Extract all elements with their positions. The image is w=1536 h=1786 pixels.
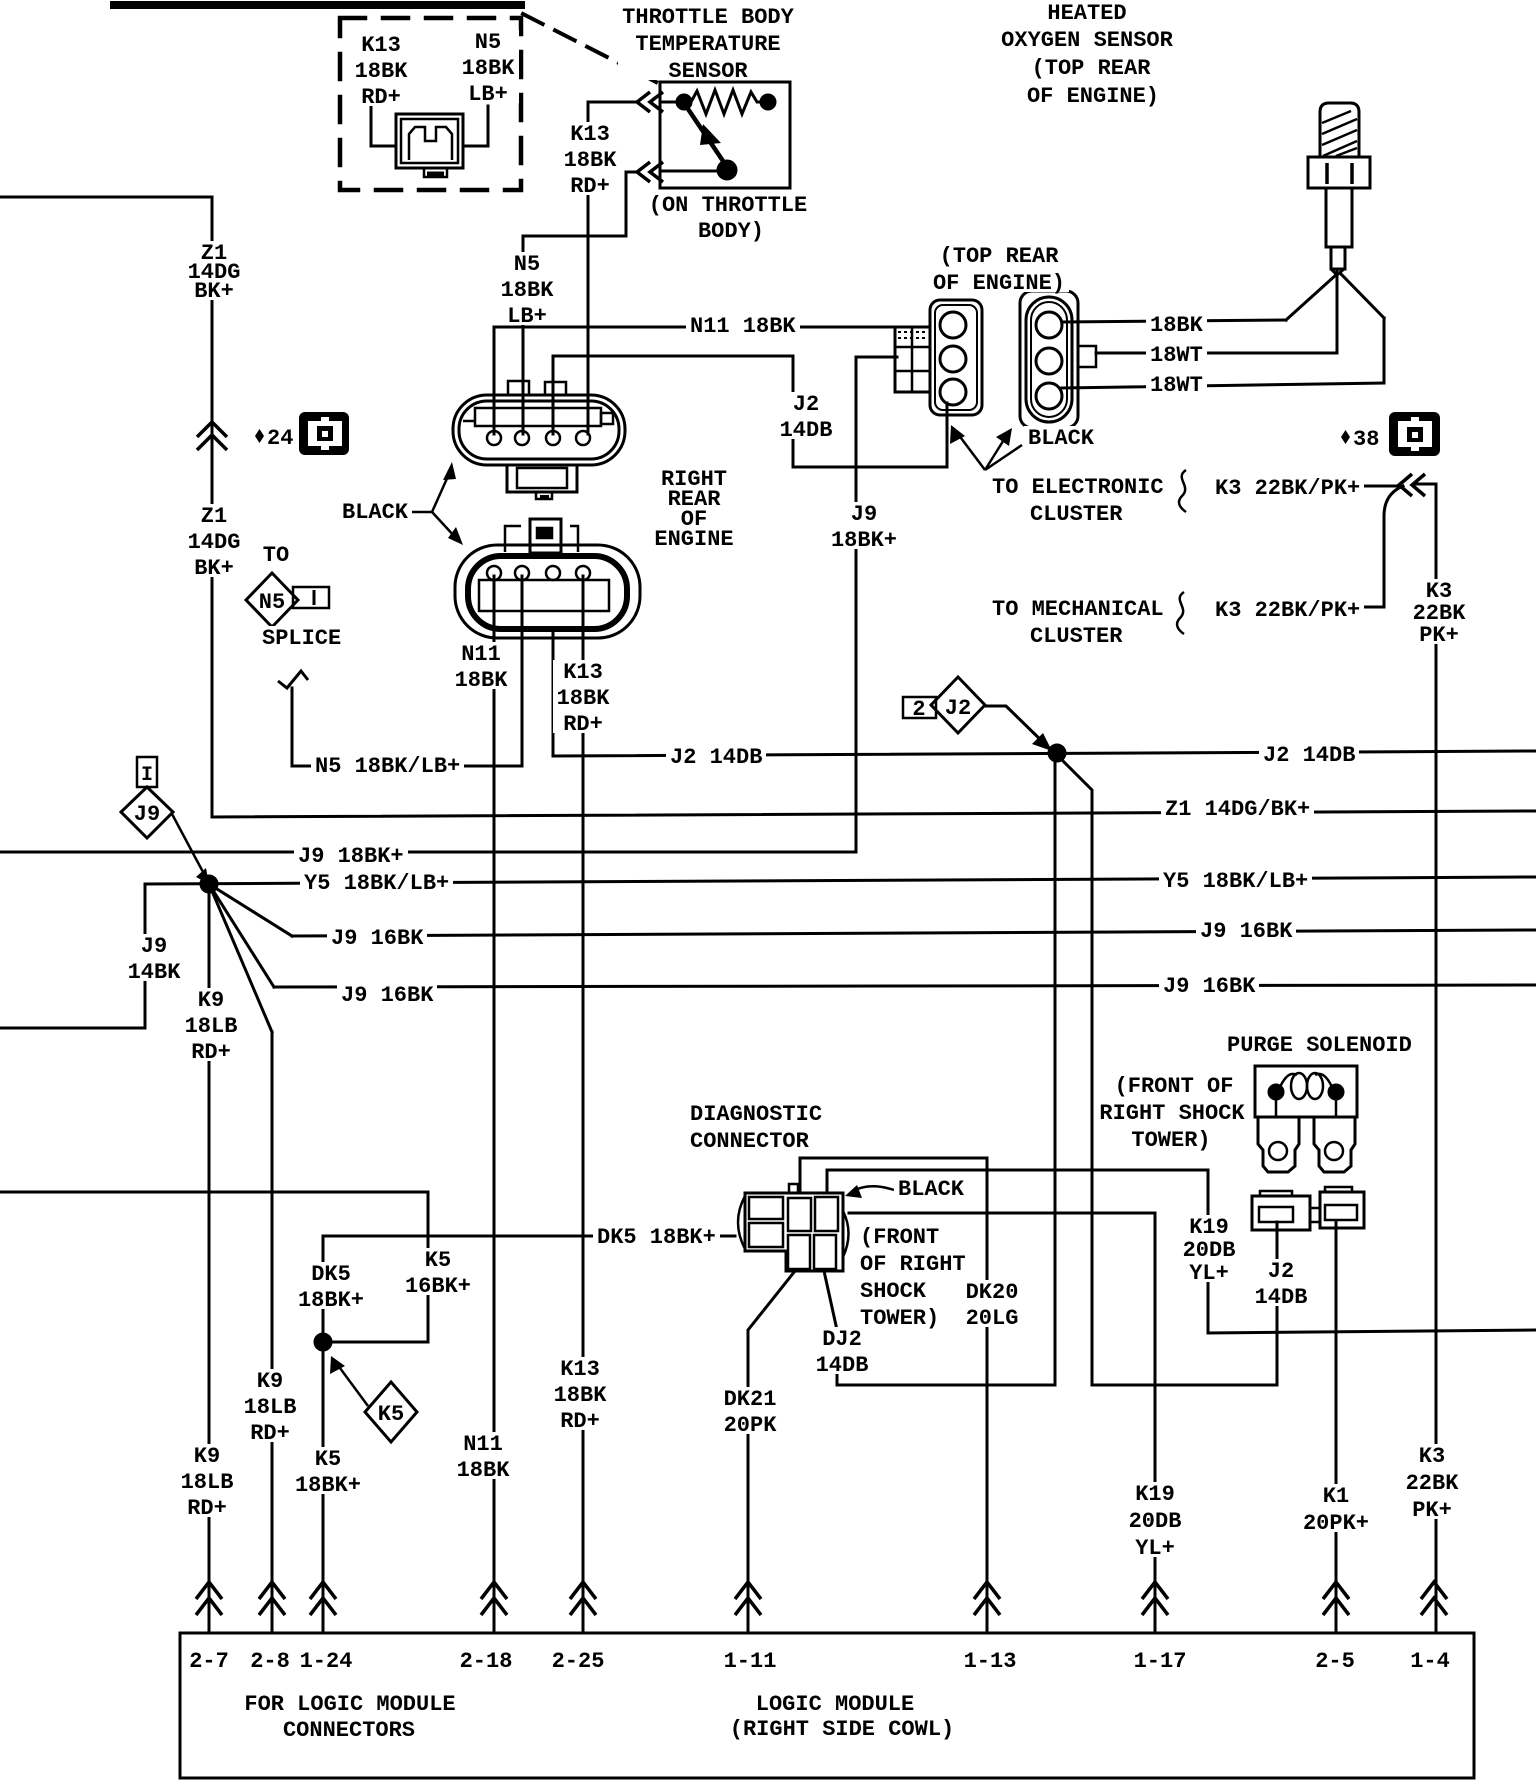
- svg-text:SPLICE: SPLICE: [262, 626, 341, 651]
- svg-text:DJ2: DJ2: [822, 1327, 862, 1352]
- svg-text:20PK+: 20PK+: [1303, 1511, 1369, 1536]
- svg-text:TO: TO: [263, 543, 289, 568]
- svg-text:K9: K9: [194, 1444, 220, 1469]
- svg-text:I: I: [141, 764, 153, 787]
- svg-text:14DB: 14DB: [816, 1353, 869, 1378]
- svg-text:RD+: RD+: [570, 174, 610, 199]
- svg-text:CLUSTER: CLUSTER: [1030, 624, 1123, 649]
- svg-text:LOGIC MODULE: LOGIC MODULE: [756, 1692, 914, 1717]
- svg-text:1-4: 1-4: [1410, 1649, 1450, 1674]
- svg-text:(TOP REAR: (TOP REAR: [940, 244, 1060, 269]
- svg-text:2-25: 2-25: [552, 1649, 605, 1674]
- svg-text:RD+: RD+: [563, 712, 603, 737]
- svg-text:BLACK: BLACK: [1028, 426, 1095, 451]
- svg-text:OXYGEN SENSOR: OXYGEN SENSOR: [1001, 28, 1173, 53]
- svg-text:N5 18BK/LB+: N5 18BK/LB+: [315, 754, 460, 779]
- svg-text:N5: N5: [259, 590, 285, 615]
- svg-text:J9 16BK: J9 16BK: [1200, 919, 1293, 944]
- svg-text:2-5: 2-5: [1315, 1649, 1355, 1674]
- svg-text:K1: K1: [1323, 1484, 1349, 1509]
- svg-text:K3: K3: [1419, 1444, 1445, 1469]
- svg-text:J9: J9: [134, 802, 160, 827]
- svg-text:ENGINE: ENGINE: [654, 527, 733, 552]
- svg-text:CONNECTORS: CONNECTORS: [283, 1718, 415, 1743]
- svg-text:18BK: 18BK: [557, 686, 611, 711]
- svg-text:J2: J2: [1268, 1259, 1294, 1284]
- svg-text:LB+: LB+: [507, 304, 547, 329]
- svg-text:N11: N11: [461, 642, 501, 667]
- svg-text:18BK+: 18BK+: [831, 528, 897, 553]
- svg-text:J9 16BK: J9 16BK: [331, 926, 424, 951]
- svg-text:18BK: 18BK: [554, 1383, 608, 1408]
- svg-text:SHOCK: SHOCK: [860, 1279, 927, 1304]
- svg-text:14DG: 14DG: [188, 530, 241, 555]
- svg-text:K13: K13: [563, 660, 603, 685]
- svg-text:RD+: RD+: [250, 1421, 290, 1446]
- svg-text:RD+: RD+: [187, 1496, 227, 1521]
- svg-text:24: 24: [267, 426, 293, 451]
- svg-text:18BK+: 18BK+: [298, 1288, 364, 1313]
- svg-text:CONNECTOR: CONNECTOR: [690, 1129, 810, 1154]
- svg-text:2-8: 2-8: [250, 1649, 290, 1674]
- svg-text:1-13: 1-13: [964, 1649, 1017, 1674]
- svg-text:(FRONT OF: (FRONT OF: [1115, 1074, 1234, 1099]
- svg-text:THROTTLE BODY: THROTTLE BODY: [622, 5, 794, 30]
- svg-text:K9: K9: [198, 988, 224, 1013]
- svg-text:YL+: YL+: [1189, 1261, 1229, 1286]
- svg-text:20DB: 20DB: [1129, 1509, 1182, 1534]
- svg-text:K3 22BK/PK+: K3 22BK/PK+: [1215, 476, 1360, 501]
- svg-text:14DB: 14DB: [780, 418, 833, 443]
- svg-text:(ON THROTTLE: (ON THROTTLE: [649, 193, 807, 218]
- svg-text:1-24: 1-24: [300, 1649, 353, 1674]
- svg-text:J9 16BK: J9 16BK: [341, 983, 434, 1008]
- svg-text:RD+: RD+: [191, 1040, 231, 1065]
- svg-text:1-11: 1-11: [724, 1649, 777, 1674]
- svg-text:BODY): BODY): [698, 219, 764, 244]
- svg-text:N5: N5: [514, 252, 540, 277]
- svg-text:20LG: 20LG: [966, 1306, 1019, 1331]
- svg-text:J2: J2: [945, 696, 971, 721]
- svg-text:Y5 18BK/LB+: Y5 18BK/LB+: [1163, 869, 1308, 894]
- svg-text:OF RIGHT: OF RIGHT: [860, 1252, 966, 1277]
- svg-text:18BK: 18BK: [355, 59, 409, 84]
- svg-text:PURGE SOLENOID: PURGE SOLENOID: [1227, 1033, 1412, 1058]
- svg-text:18BK: 18BK: [457, 1458, 511, 1483]
- svg-text:OF ENGINE): OF ENGINE): [1027, 84, 1159, 109]
- svg-text:(FRONT: (FRONT: [860, 1225, 939, 1250]
- svg-text:Y5 18BK/LB+: Y5 18BK/LB+: [304, 871, 449, 896]
- svg-text:18BK: 18BK: [455, 668, 509, 693]
- svg-text:18BK: 18BK: [564, 148, 618, 173]
- svg-text:18BK: 18BK: [1150, 313, 1204, 338]
- svg-text:K19: K19: [1135, 1482, 1175, 1507]
- svg-text:DK21: DK21: [724, 1387, 777, 1412]
- svg-text:DK5 18BK+: DK5 18BK+: [597, 1225, 716, 1250]
- svg-text:2-18: 2-18: [460, 1649, 513, 1674]
- svg-text:2-7: 2-7: [189, 1649, 229, 1674]
- svg-text:18LB: 18LB: [185, 1014, 238, 1039]
- svg-text:BLACK: BLACK: [342, 500, 409, 525]
- svg-text:DK20: DK20: [966, 1280, 1019, 1305]
- svg-text:FOR LOGIC MODULE: FOR LOGIC MODULE: [244, 1692, 455, 1717]
- svg-text:SENSOR: SENSOR: [668, 59, 748, 84]
- svg-text:K19: K19: [1189, 1215, 1229, 1240]
- svg-text:DIAGNOSTIC: DIAGNOSTIC: [690, 1102, 822, 1127]
- svg-text:16BK+: 16BK+: [405, 1274, 471, 1299]
- svg-text:BLACK: BLACK: [898, 1177, 965, 1202]
- svg-text:N5: N5: [475, 30, 501, 55]
- svg-text:(RIGHT SIDE COWL): (RIGHT SIDE COWL): [730, 1717, 954, 1742]
- svg-text:K5: K5: [378, 1402, 404, 1427]
- svg-text:RIGHT SHOCK: RIGHT SHOCK: [1099, 1101, 1245, 1126]
- svg-text:N11 18BK: N11 18BK: [690, 314, 796, 339]
- svg-text:20DB: 20DB: [1183, 1238, 1236, 1263]
- svg-text:LB+: LB+: [468, 82, 508, 107]
- svg-text:BK+: BK+: [194, 279, 234, 304]
- svg-text:K3 22BK/PK+: K3 22BK/PK+: [1215, 598, 1360, 623]
- svg-text:22BK: 22BK: [1406, 1471, 1460, 1496]
- svg-text:K9: K9: [257, 1369, 283, 1394]
- svg-text:TEMPERATURE: TEMPERATURE: [635, 32, 780, 57]
- svg-text:TO MECHANICAL: TO MECHANICAL: [992, 597, 1164, 622]
- svg-text:CLUSTER: CLUSTER: [1030, 502, 1123, 527]
- svg-text:RD+: RD+: [560, 1409, 600, 1434]
- svg-text:BK+: BK+: [194, 556, 234, 581]
- svg-text:TOWER): TOWER): [1131, 1128, 1210, 1153]
- svg-text:18BK: 18BK: [462, 56, 516, 81]
- svg-text:TO ELECTRONIC: TO ELECTRONIC: [992, 475, 1164, 500]
- svg-text:J9 16BK: J9 16BK: [1163, 974, 1256, 999]
- svg-text:OF ENGINE): OF ENGINE): [933, 271, 1065, 296]
- svg-text:K5: K5: [315, 1447, 341, 1472]
- svg-text:RD+: RD+: [361, 85, 401, 110]
- svg-text:18WT: 18WT: [1150, 343, 1203, 368]
- svg-text:J9: J9: [851, 502, 877, 527]
- svg-text:HEATED: HEATED: [1047, 1, 1126, 26]
- svg-text:J9 18BK+: J9 18BK+: [298, 844, 404, 869]
- svg-text:Z1: Z1: [201, 504, 227, 529]
- svg-text:2: 2: [912, 697, 925, 722]
- svg-text:20PK: 20PK: [724, 1413, 778, 1438]
- svg-text:J2 14DB: J2 14DB: [1263, 743, 1355, 768]
- svg-text:N11: N11: [463, 1432, 503, 1457]
- svg-text:18LB: 18LB: [244, 1395, 297, 1420]
- svg-text:PK+: PK+: [1412, 1498, 1452, 1523]
- svg-text:PK+: PK+: [1419, 623, 1459, 648]
- svg-text:Z1 14DG/BK+: Z1 14DG/BK+: [1165, 797, 1310, 822]
- svg-text:38: 38: [1353, 427, 1379, 452]
- svg-text:18BK: 18BK: [501, 278, 555, 303]
- svg-text:DK5: DK5: [311, 1262, 351, 1287]
- svg-text:J2 14DB: J2 14DB: [670, 745, 762, 770]
- svg-text:1-17: 1-17: [1134, 1649, 1187, 1674]
- svg-text:(TOP REAR: (TOP REAR: [1032, 56, 1152, 81]
- svg-text:18BK+: 18BK+: [295, 1473, 361, 1498]
- svg-text:14BK: 14BK: [128, 960, 182, 985]
- svg-text:14DB: 14DB: [1255, 1285, 1308, 1310]
- svg-text:K13: K13: [361, 33, 401, 58]
- svg-text:K13: K13: [570, 122, 610, 147]
- svg-text:K13: K13: [560, 1357, 600, 1382]
- svg-text:YL+: YL+: [1135, 1536, 1175, 1561]
- svg-text:J9: J9: [141, 934, 167, 959]
- svg-text:J2: J2: [793, 392, 819, 417]
- svg-text:18LB: 18LB: [181, 1470, 234, 1495]
- svg-text:18WT: 18WT: [1150, 373, 1203, 398]
- svg-text:K5: K5: [425, 1248, 451, 1273]
